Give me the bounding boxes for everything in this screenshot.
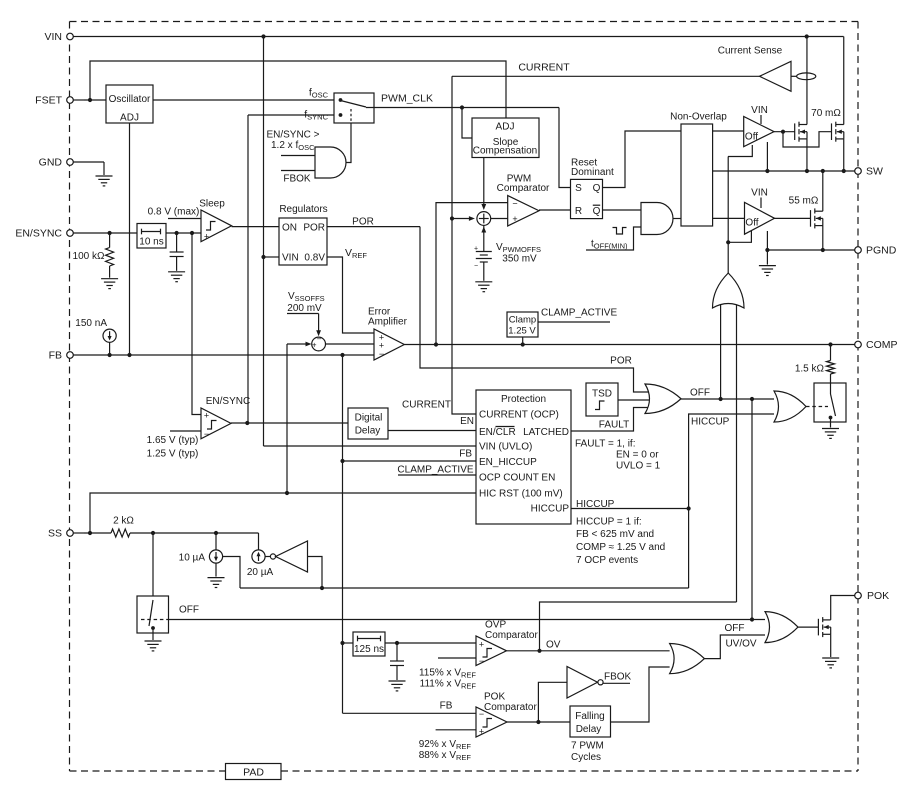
svg-text:1.5 kΩ: 1.5 kΩ [795, 364, 825, 375]
svg-text:COMP ≈ 1.25 V and: COMP ≈ 1.25 V and [576, 542, 665, 553]
wire sleep comparator output to regulators ON [232, 226, 279, 228]
voltage source VPWMOFFS 350 mV [483, 225, 485, 231]
wire FSET to oscillator [84, 99, 106, 101]
svg-text:OFF: OFF [179, 605, 199, 616]
svg-text:+: + [479, 640, 484, 650]
svg-text:HIC RST (100 mV): HIC RST (100 mV) [479, 489, 563, 500]
wire non-overlap to high driver [713, 130, 744, 132]
svg-text:CURRENT: CURRENT [402, 400, 451, 411]
node FB to EN_HICCUP [340, 459, 344, 463]
node high driver ref on SW [765, 169, 769, 173]
wire OFF drop to POK OR [751, 399, 753, 620]
node POK output branch [536, 720, 540, 724]
svg-text:FB < 625 mV and: FB < 625 mV and [576, 529, 654, 540]
svg-text:HICCUP: HICCUP [691, 417, 730, 428]
wire FB to POK comparator [343, 712, 477, 714]
svg-text:−: − [204, 429, 209, 439]
svg-text:1.25 V: 1.25 V [508, 326, 536, 337]
block Falling Delay [570, 706, 611, 737]
resistor 2 kOhm [111, 529, 130, 537]
svg-text:OVP: OVP [485, 620, 506, 631]
wire PWM_CLK branch into slope comp [462, 108, 472, 139]
wire high driver off control [728, 145, 752, 157]
glyph tOFF pulse [613, 228, 627, 235]
wire AND out to non-overlap [673, 218, 681, 220]
wire COMP line (error amp output) [404, 344, 854, 346]
node OFF to POK branch [750, 397, 754, 401]
current sense loop [797, 73, 816, 80]
svg-text:7 OCP events: 7 OCP events [576, 555, 638, 566]
node SS switch branch [151, 531, 155, 535]
svg-text:−: − [512, 199, 517, 209]
svg-text:POK: POK [484, 692, 505, 703]
svg-text:S: S [575, 183, 582, 194]
svg-text:CLAMP_ACTIVE: CLAMP_ACTIVE [541, 308, 617, 319]
pin VIN [73, 36, 80, 38]
wire fSYNC line [248, 114, 334, 116]
node FB 150nA [108, 353, 112, 357]
svg-text:7 PWM: 7 PWM [571, 741, 604, 752]
svg-text:VIN: VIN [751, 105, 768, 116]
node OVP cap branch [395, 641, 399, 645]
ground COMP switch [822, 429, 839, 439]
svg-text:Off: Off [745, 132, 758, 143]
svg-text:PAD: PAD [243, 767, 264, 779]
capacitor OVP filter [396, 643, 398, 661]
wire FET1 drain to VIN [806, 37, 808, 125]
OR gate comp-clamp [774, 391, 806, 422]
wire PWM_CLK [366, 107, 559, 109]
wire CURRENT line [452, 75, 760, 77]
svg-text:OFF: OFF [725, 623, 745, 634]
wire EN/SYNC line [104, 232, 201, 234]
wire POK FET source to ground [830, 634, 832, 657]
node COMP 1.5k branch [828, 342, 832, 346]
net CLAMP_ACTIVE to OCP COUNT EN [398, 474, 476, 476]
pin FB [73, 354, 104, 356]
svg-text:TSD: TSD [592, 389, 612, 400]
svg-text:10 µA: 10 µA [179, 553, 206, 564]
oscillator box [106, 85, 153, 123]
node OFF at POK OR [750, 617, 754, 621]
svg-text:Dominant: Dominant [571, 167, 614, 178]
wire FAULT from protection [571, 408, 649, 432]
node EN/SYNC comp output [231, 422, 348, 424]
wire SS line to HIC RST [90, 493, 476, 533]
svg-text:ON: ON [282, 223, 297, 234]
OR gate gate-kill (points up) [713, 273, 745, 308]
wire tOFFMIN input [586, 227, 641, 250]
pin PGND [855, 247, 862, 254]
svg-text:FBOK: FBOK [604, 672, 632, 683]
svg-text:EN_HICCUP: EN_HICCUP [479, 457, 537, 468]
svg-text:Digital: Digital [355, 413, 383, 424]
svg-text:CURRENT (OCP): CURRENT (OCP) [479, 410, 559, 421]
node inverter junction [320, 586, 324, 590]
wire gate-kill OR output [727, 242, 729, 273]
node SS 10uA branch [214, 531, 218, 535]
wire CURRENT down to summing and protection [452, 76, 476, 414]
node SS riser [88, 531, 92, 535]
svg-text:Delay: Delay [576, 724, 602, 735]
block Digital Delay [348, 408, 388, 439]
delay 125 ns box [353, 632, 385, 656]
node EN/SYNC cap branch [175, 231, 179, 235]
wire OV output [507, 650, 670, 652]
svg-text:CURRENT: CURRENT [518, 62, 570, 74]
transistor FET2 70mOhm [832, 122, 844, 142]
svg-text:FB: FB [440, 701, 453, 712]
node gate-kill output branch [726, 240, 730, 244]
pin POK [855, 592, 862, 599]
block Clamp 1.25V [507, 312, 538, 337]
wire low driver off control [728, 231, 751, 242]
wire fSYNC riser from EN/SYNC comparator [247, 115, 249, 423]
pin SS [73, 532, 84, 534]
wire slope comp output to summing [483, 158, 485, 207]
inverter 20uA enable [270, 554, 275, 559]
node HICCUP output [687, 506, 691, 510]
svg-text:CLAMP_ACTIVE: CLAMP_ACTIVE [397, 465, 473, 476]
svg-text:FB: FB [49, 350, 62, 362]
svg-text:POR: POR [303, 223, 325, 234]
svg-text:EN/SYNC: EN/SYNC [206, 396, 250, 407]
svg-text:0.8 V (max): 0.8 V (max) [148, 207, 200, 218]
wire 55m source to PGND [822, 226, 824, 250]
svg-text:POR: POR [352, 217, 374, 228]
wire OFF-hiccup horizontal [240, 587, 689, 589]
wire inverter input from OFF net [308, 557, 323, 589]
svg-text:150 nA: 150 nA [75, 318, 107, 329]
svg-text:2 kΩ: 2 kΩ [113, 516, 134, 527]
wire non-overlap to low driver [713, 217, 745, 219]
svg-text:Protection: Protection [501, 394, 546, 405]
resistor 1.5 kOhm [830, 345, 832, 361]
svg-text:Non-Overlap: Non-Overlap [670, 112, 727, 123]
node VIN-regulators branch [261, 34, 265, 38]
svg-text:0.8V: 0.8V [304, 253, 325, 264]
svg-text:EN/CLR: EN/CLR [479, 427, 516, 438]
wire TSD output [618, 399, 649, 401]
svg-text:R: R [575, 206, 582, 217]
svg-text:Delay: Delay [355, 426, 381, 437]
wire AND out to mux [346, 123, 351, 163]
svg-text:+: + [204, 411, 209, 421]
svg-text:GND: GND [39, 157, 63, 169]
svg-text:Q: Q [593, 206, 601, 217]
svg-text:100 kΩ: 100 kΩ [73, 251, 105, 262]
IC boundary (dashed) [70, 21, 859, 23]
svg-text:Falling: Falling [575, 711, 604, 722]
wire POK comp output [507, 721, 570, 723]
node regulators VIN input [261, 255, 265, 259]
wire POK OR to FET gate [798, 626, 818, 628]
node FB oscillator branch [127, 353, 131, 357]
switch SS discharge [152, 533, 154, 596]
block Protection [476, 390, 571, 524]
wire SS riser to summing [286, 344, 288, 493]
svg-text:20 µA: 20 µA [247, 567, 274, 578]
svg-text:UV/OV: UV/OV [725, 639, 756, 650]
wire PWM comparator output to latch R [539, 209, 571, 211]
ground OVP cap [389, 681, 406, 691]
svg-text:OV: OV [546, 640, 561, 651]
svg-text:+: + [474, 246, 478, 253]
wire 55m drain to SW [822, 171, 824, 211]
wire VSSOFFS into summing node [287, 313, 319, 315]
resistor 100 kOhm [109, 233, 111, 248]
svg-text:POR: POR [610, 356, 632, 367]
pin GND [73, 161, 104, 163]
svg-text:EN/SYNC >: EN/SYNC > [266, 130, 319, 141]
wire POK FET drain to pin [831, 596, 855, 620]
svg-text:Compensation: Compensation [473, 146, 537, 157]
node OV branch [537, 649, 541, 653]
current source 10 uA [215, 533, 217, 550]
svg-text:Amplifier: Amplifier [368, 317, 408, 328]
wire EN to protection [388, 430, 476, 432]
svg-text:Cycles: Cycles [571, 752, 601, 763]
wire Qbar output to AND [603, 209, 642, 211]
wire HICCUP riser [689, 414, 774, 588]
ground 10uA [208, 578, 225, 588]
pin FSET [73, 99, 84, 101]
svg-text:−: − [479, 656, 484, 666]
node 100k branch [108, 231, 112, 235]
delay 10 ns box [137, 224, 166, 249]
ground GND pin [96, 176, 113, 186]
ground SS switch [145, 641, 162, 651]
svg-text:EN/SYNC: EN/SYNC [15, 228, 62, 240]
svg-text:VIN: VIN [751, 188, 768, 199]
wire oscillator fOSC output [153, 99, 334, 101]
AND gate min-off-time [641, 203, 673, 235]
wire SW feedback line [713, 170, 855, 172]
svg-text:EN = 0 or: EN = 0 or [616, 450, 659, 461]
svg-text:Comparator: Comparator [485, 630, 538, 641]
svg-text:FAULT: FAULT [599, 420, 629, 431]
svg-text:ADJ: ADJ [120, 113, 139, 124]
wire VIN rail [80, 36, 844, 38]
node FB riser branch [340, 353, 344, 357]
svg-text:Clamp: Clamp [509, 315, 536, 326]
ground 100k [101, 279, 118, 289]
OR gate fault (OFF) [645, 384, 681, 414]
svg-text:FB: FB [459, 449, 472, 460]
wire PWM_CLK down to latch S [559, 108, 571, 188]
net FBOK stub [603, 682, 630, 684]
svg-text:ADJ: ADJ [496, 122, 515, 133]
svg-text:SW: SW [866, 166, 883, 178]
svg-text:Comparator: Comparator [484, 702, 537, 713]
capacitor EN/SYNC filter [176, 233, 178, 252]
svg-text:55 mΩ: 55 mΩ [789, 196, 819, 207]
wire summing to PWM comparator + [491, 218, 508, 220]
wire GND pin to ground [103, 162, 105, 175]
wire EN/SYNC down to EN/SYNC comparator [192, 233, 201, 415]
svg-text:Q: Q [593, 183, 601, 194]
svg-text:−: − [317, 335, 322, 344]
inverter FBOK [567, 667, 598, 699]
summing node error amp [312, 337, 326, 351]
wire 125ns to OVP [385, 642, 476, 644]
node high driver gate [774, 131, 795, 133]
wire VIN to protection UVLO [264, 445, 477, 447]
svg-text:+: + [479, 727, 484, 737]
wire FET2 source to SW [843, 139, 845, 171]
wire HICCUP from protection [571, 508, 689, 510]
svg-text:Regulators: Regulators [279, 204, 327, 215]
wire POR output [327, 226, 420, 228]
wire VIN to regulators (down) [263, 37, 265, 447]
node VIN-FET1 branch [805, 34, 809, 38]
wire Q output to non-overlap [603, 131, 682, 188]
svg-text:EN: EN [460, 416, 474, 427]
svg-text:70 mΩ: 70 mΩ [811, 108, 841, 119]
switch COMP clamp [814, 383, 846, 422]
svg-text:FSET: FSET [35, 95, 62, 107]
wire high driver SW reference [766, 142, 768, 171]
ground VPWMOFFS [475, 282, 492, 292]
wire VREF output [327, 257, 374, 333]
node COMP to PWM comparator [434, 342, 438, 346]
wire falling delay to UV/OV OR [611, 667, 670, 722]
wire oscillator bottom to FB [129, 123, 131, 355]
ground EN/SYNC cap [168, 272, 185, 282]
svg-text:+: + [312, 341, 317, 350]
wire COMP riser to PWM comparator [436, 203, 508, 345]
svg-text:HICCUP = 1 if:: HICCUP = 1 if: [576, 517, 642, 528]
transistor FET1 70mOhm [795, 122, 807, 142]
node PWM_CLK to slope-comp branch [460, 105, 464, 109]
svg-text:VIN: VIN [282, 253, 299, 264]
svg-text:350 mV: 350 mV [502, 254, 537, 265]
wire FSET up-over to slope comp [90, 61, 506, 118]
block TSD [586, 383, 618, 416]
svg-text:Sleep: Sleep [199, 199, 225, 210]
node SS riser to summing [285, 491, 289, 495]
summing node PWM [477, 212, 491, 226]
wire OFF line from fault OR [681, 398, 774, 400]
svg-text:125 ns: 125 ns [354, 644, 384, 655]
svg-text:SS: SS [48, 528, 62, 540]
wire gate link to FET2 [783, 132, 832, 147]
wire OFF riser to gate-kill OR [720, 301, 722, 399]
wire FET2 drain to VIN [843, 37, 845, 125]
wire clamp to COMP line [522, 337, 524, 345]
wire summing to error amp [326, 343, 375, 345]
svg-text:10 ns: 10 ns [139, 237, 163, 248]
ground POK FET [822, 658, 839, 668]
wire to FBOK inverter [538, 682, 567, 722]
wire low driver gate to FET [775, 217, 811, 219]
svg-text:Off: Off [745, 218, 758, 229]
svg-text:COMP: COMP [866, 339, 898, 351]
pin EN/SYNC [73, 232, 104, 234]
svg-text:Current Sense: Current Sense [718, 46, 783, 57]
node OFF to gate-kill [719, 397, 723, 401]
svg-text:−: − [474, 263, 478, 270]
wire OV riser to gate-kill OR [736, 301, 738, 602]
OR gate POK [765, 612, 798, 643]
svg-text:FAULT = 1, if:: FAULT = 1, if: [575, 439, 636, 450]
wire FB line [104, 354, 374, 356]
svg-text:UVLO = 1: UVLO = 1 [616, 461, 661, 472]
svg-text:−: − [479, 709, 484, 719]
PAD pin box [226, 764, 282, 780]
AND gate U-sync [281, 155, 315, 157]
svg-text:POK: POK [867, 590, 889, 602]
wire SS into summing node [287, 343, 310, 345]
net CLAMP_ACTIVE from clamp [538, 321, 610, 323]
transistor POK FET [818, 617, 830, 637]
wire FB riser down [342, 355, 344, 713]
svg-text:Oscillator: Oscillator [109, 94, 151, 105]
current source 20 uA [258, 533, 260, 550]
wire OFF line to POK OR [169, 619, 766, 621]
svg-text:200 mV: 200 mV [287, 303, 322, 314]
svg-text:OCP COUNT EN: OCP COUNT EN [479, 473, 555, 484]
svg-text:FBOK: FBOK [283, 174, 311, 185]
node FB to 125ns [340, 641, 344, 645]
node CURRENT summing branch [450, 216, 454, 220]
wire UV/OV to POK OR [704, 635, 765, 659]
wire 10uA side link [223, 557, 240, 589]
clock mux switch box [334, 93, 374, 123]
pin COMP [855, 341, 862, 348]
wire FET1 source to SW [806, 139, 808, 171]
svg-text:+: + [204, 232, 209, 242]
svg-text:VIN: VIN [44, 31, 62, 43]
svg-text:LATCHED: LATCHED [523, 427, 569, 438]
wire POR down-over to TSD OR [420, 227, 649, 392]
wire SS line [84, 532, 111, 534]
pin SW [855, 168, 862, 175]
wire low driver ground ref [766, 231, 768, 265]
svg-text:1.65 V (typ): 1.65 V (typ) [147, 435, 199, 446]
svg-text:Comparator: Comparator [497, 183, 550, 194]
svg-text:HICCUP: HICCUP [531, 504, 570, 515]
ground low driver [759, 266, 776, 276]
wire FSET node [88, 98, 92, 102]
OR gate UV/OV [670, 644, 705, 674]
svg-text:PGND: PGND [866, 245, 897, 257]
svg-text:VIN (UVLO): VIN (UVLO) [479, 442, 532, 453]
svg-text:1.25 V (typ): 1.25 V (typ) [147, 449, 199, 460]
svg-text:HICCUP: HICCUP [576, 499, 615, 510]
wire OV riser to gate-kill [540, 602, 737, 651]
svg-text:+: + [512, 214, 517, 224]
transistor FET 55mOhm [811, 208, 823, 228]
svg-text:OFF: OFF [690, 388, 710, 399]
svg-text:PWM_CLK: PWM_CLK [381, 93, 433, 105]
node EN/SYNC comp branch [190, 231, 194, 235]
wire PGND line [767, 249, 854, 251]
block ADJ Slope Compensation [472, 118, 539, 158]
svg-text:−: − [379, 349, 384, 359]
